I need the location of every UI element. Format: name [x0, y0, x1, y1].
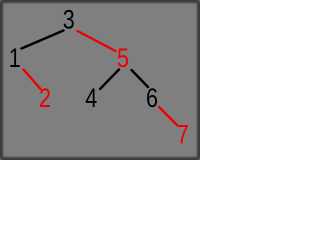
svg-text:4: 4 [85, 84, 97, 114]
svg-text:1: 1 [9, 44, 21, 74]
svg-text:3: 3 [63, 5, 75, 35]
wire: edge 6-7 (red) [159, 107, 177, 125]
wire: edge 5-4 (black) [100, 70, 119, 90]
wire: edge 5-6 (black) [132, 70, 149, 87]
svg-text:6: 6 [146, 84, 158, 114]
panel border [1, 1, 199, 159]
wire: edge 3-5 (red) [78, 31, 116, 51]
svg-text:5: 5 [117, 44, 129, 74]
panel background [0, 0, 200, 160]
svg-text:7: 7 [177, 120, 189, 150]
svg-text:2: 2 [39, 84, 51, 114]
wire: edge 1-3 (black) [22, 31, 64, 49]
wire: edge 1-2 (red) [24, 70, 41, 90]
